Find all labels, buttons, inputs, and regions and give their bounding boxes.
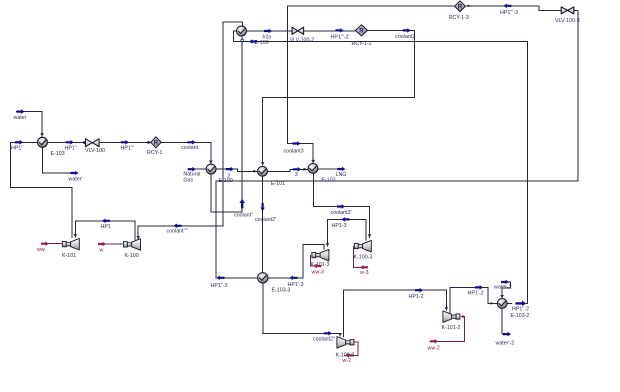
svg-text:coolant2'': coolant2'' <box>313 337 335 343</box>
label VLV-100-3 <box>555 18 580 24</box>
svg-text:R: R <box>154 140 159 147</box>
recycle RCY-1-2 <box>356 25 368 36</box>
svg-text:2: 2 <box>227 174 230 180</box>
svg-text:coolant2': coolant2' <box>255 217 276 223</box>
stream HP1'-2 wire (K-101-2 to E-103-2) <box>450 285 497 314</box>
stream HP1-3 wire (K-100-3 to K-101-3) <box>326 217 366 247</box>
label K-100-3 <box>354 255 373 261</box>
heat exchanger E-100 <box>206 164 216 174</box>
stream coolant5 wire (RCY-1-2 to E-101) <box>261 28 415 165</box>
stream water' label <box>69 177 83 183</box>
svg-text:K-100-3: K-100-3 <box>354 255 373 261</box>
energy stream w label <box>100 247 104 253</box>
svg-text:HP1': HP1' <box>11 145 22 151</box>
label E-103-3 <box>272 287 291 293</box>
label E-102 <box>322 177 336 183</box>
heat exchanger E-101 <box>258 166 268 176</box>
svg-text:coolant3': coolant3' <box>331 210 352 216</box>
svg-text:coolant'''': coolant'''' <box>167 229 188 235</box>
svg-text:RCY-1-2: RCY-1-2 <box>352 41 372 47</box>
svg-text:HP1'-2: HP1'-2 <box>468 290 484 296</box>
svg-text:E-101: E-101 <box>271 181 285 187</box>
svg-text:RCY-1-3: RCY-1-3 <box>449 15 469 21</box>
stream HP1 wire (K-100 to K-101) <box>74 219 135 240</box>
stream LNG label <box>336 172 347 178</box>
svg-text:HP1-3: HP1-3 <box>332 223 347 229</box>
svg-text:3: 3 <box>295 172 298 178</box>
label VLV-100 <box>85 148 105 154</box>
svg-text:w: w <box>100 247 104 253</box>
energy stream w wire <box>98 242 124 247</box>
stream HP1'''-2 label <box>331 34 349 40</box>
stream coolant3' wire (E-102 to K-100-3) <box>313 173 371 238</box>
svg-text:coolant'': coolant'' <box>234 213 253 219</box>
stream HP1'' wire <box>48 140 86 145</box>
recycle RCY-1-3 <box>455 1 466 12</box>
label VLV-100-2 <box>290 37 315 43</box>
stream HP1' label <box>11 145 22 151</box>
svg-text:HP1'': HP1'' <box>65 145 77 151</box>
label K-100 <box>125 253 139 259</box>
heat exchanger E-102 <box>308 164 318 174</box>
svg-text:VLV-100-2: VLV-100-2 <box>290 37 315 43</box>
compressor K-100-3 <box>354 240 371 252</box>
stream 3 wire <box>267 167 308 172</box>
svg-text:HP1'''-2: HP1'''-2 <box>331 34 349 40</box>
stream coolant2'' label <box>313 337 335 343</box>
svg-text:HP1-2: HP1-2 <box>409 294 424 300</box>
stream coolant'''' label <box>167 229 188 235</box>
stream HP1''-3 label <box>211 283 228 289</box>
svg-text:HP1''-2: HP1''-2 <box>512 307 529 313</box>
stream coolant'' label <box>234 213 253 219</box>
svg-text:Gas: Gas <box>183 177 193 183</box>
energy stream w-3 wire <box>353 246 368 270</box>
label K-101-3 <box>311 262 330 268</box>
stream water'-2 wire <box>502 308 511 336</box>
svg-text:HP1: HP1 <box>101 224 111 230</box>
stream h2o label <box>263 35 272 41</box>
stream HP1 label <box>101 224 111 230</box>
stream HP1''' wire <box>99 140 150 145</box>
svg-text:K-100: K-100 <box>125 253 139 259</box>
stream coolant2' label <box>255 217 276 223</box>
stream Natural Gas feed wire <box>188 167 206 172</box>
svg-text:coolant2: coolant2 <box>395 34 415 40</box>
label E-101 <box>271 181 285 187</box>
stream 2 label <box>227 174 230 180</box>
svg-text:HP1''-3: HP1''-3 <box>211 283 228 289</box>
compressor K-101-3 <box>312 249 329 261</box>
stream HP1''-2 label <box>512 307 529 313</box>
svg-text:ww-2: ww-2 <box>428 345 440 351</box>
stream HP1''' label <box>121 145 134 151</box>
stream coolant3 wire (RCY-1-3 to E-102) <box>288 6 455 164</box>
stream coolant label <box>181 145 199 151</box>
svg-text:water: water <box>14 115 27 121</box>
stream HP1'''-3 wire (VLV-100-3 to RCY-1-3) <box>466 4 561 11</box>
svg-text:coolant3: coolant3 <box>284 148 304 154</box>
stream coolant3 label <box>284 148 304 154</box>
label E-100 <box>219 178 233 184</box>
svg-text:water-2: water-2 <box>494 285 512 291</box>
energy stream ww wire <box>41 241 62 246</box>
svg-text:HP1'''-3: HP1'''-3 <box>500 10 518 16</box>
stream water-2 feed wire <box>500 280 510 299</box>
stream HP1'-2 label <box>468 290 484 296</box>
heat exchanger E-103 <box>38 137 48 147</box>
stream water-2 label <box>494 285 512 291</box>
svg-text:K-101-2: K-101-2 <box>442 325 461 331</box>
energy stream w-3 label <box>360 270 369 276</box>
stream coolant2' wire (E-101 to E-103-3) <box>260 176 265 272</box>
svg-text:HP1''': HP1''' <box>121 145 134 151</box>
label RCY-1-2 <box>352 41 372 47</box>
heat exchanger E-103-2 <box>497 299 507 309</box>
label K-101 <box>62 253 76 259</box>
svg-text:ww: ww <box>37 247 45 253</box>
svg-text:E-103: E-103 <box>51 151 65 157</box>
label K-100-2 <box>336 353 355 359</box>
stream HP1'' label <box>65 145 77 151</box>
compressor K-100-2 <box>337 337 354 349</box>
svg-text:coolant: coolant <box>181 145 199 151</box>
svg-text:E-103-3: E-103-3 <box>272 287 291 293</box>
stream HP1''-3 wire (E-103-3 to VLV-100-3) <box>216 10 578 280</box>
recycle RCY-1 <box>151 137 162 148</box>
compressor K-100 <box>124 239 141 251</box>
energy stream ww-2 wire <box>430 315 465 343</box>
svg-text:HP1'-3: HP1'-3 <box>288 282 304 288</box>
stream HP1'''-3 label <box>500 10 518 16</box>
valve VLV-100 <box>83 139 99 147</box>
svg-text:VLV-100: VLV-100 <box>85 148 105 154</box>
compressor K-101 <box>62 239 79 251</box>
stream water' wire <box>43 147 79 175</box>
svg-text:w-2: w-2 <box>343 358 352 364</box>
svg-text:R: R <box>458 3 463 10</box>
svg-text:E-102: E-102 <box>322 177 336 183</box>
svg-text:R: R <box>359 28 364 35</box>
svg-text:VLV-100-3: VLV-100-3 <box>555 18 580 24</box>
stream HP1''-2 wire (E-103-2 to E-100top) <box>234 31 528 306</box>
stream HP1-3 label <box>332 223 347 229</box>
stream 2 wire <box>216 167 257 173</box>
svg-text:water': water' <box>69 177 83 183</box>
energy stream w-2 wire <box>345 342 358 358</box>
stream coolant2'' wire (E-103-3 to K-100-2) <box>263 283 342 336</box>
stream coolant3' label <box>331 210 352 216</box>
valve VLV-100-3 <box>561 7 574 14</box>
stream coolant'''' wire (E-100top to K-100) <box>136 22 242 239</box>
stream HP1'''-2 wire <box>304 28 356 33</box>
energy stream ww-2 label <box>428 345 440 351</box>
label RCY-1 <box>147 150 162 156</box>
stream coolant'' wire (E-100 bottom to E-100top bottom) <box>211 36 245 212</box>
stream h2o wire <box>247 29 293 34</box>
stream HP1'-3 wire (K-101-3 to E-103-3) <box>268 245 324 281</box>
heat exchanger E-100top <box>237 26 247 42</box>
stream LNG wire <box>318 167 346 172</box>
stream coolant5 label <box>395 34 415 40</box>
stream coolant wire (RCY-1 to E-100) <box>162 140 213 164</box>
label K-101-2 <box>442 325 461 331</box>
svg-text:w-3: w-3 <box>360 270 369 276</box>
energy stream ww-3 label <box>312 270 324 276</box>
label E-103 <box>51 151 65 157</box>
stream HP1-2 wire (K-100-2 to K-101-2) <box>344 288 449 337</box>
svg-text:K-101: K-101 <box>62 253 76 259</box>
stream Natural Gas label <box>183 172 200 184</box>
energy stream w-2 label <box>343 358 352 364</box>
label E-103-2 <box>511 313 530 319</box>
stream HP1-2 label <box>409 294 424 300</box>
svg-text:LNG: LNG <box>336 172 347 178</box>
label RCY-1-3 <box>449 15 469 21</box>
stream water'-2 label <box>496 341 515 347</box>
compressor K-101-2 <box>443 311 460 323</box>
heat exchanger E-103-3 <box>258 273 268 283</box>
stream HP1'-3 label <box>288 282 304 288</box>
stream HP1' wire (K-101 outlet loop to E-103) <box>10 140 72 238</box>
svg-text:ww-3: ww-3 <box>312 270 324 276</box>
svg-text:h2o: h2o <box>263 35 272 41</box>
stream water label <box>14 115 27 121</box>
svg-text:water'-2: water'-2 <box>496 341 515 347</box>
stream 3 label <box>295 172 298 178</box>
valve VLV-100-2 <box>292 27 304 34</box>
svg-text:E-103-2: E-103-2 <box>511 313 530 319</box>
stream water feed wire <box>16 109 44 137</box>
energy stream ww label <box>37 247 45 253</box>
svg-text:RCY-1: RCY-1 <box>147 150 162 156</box>
label E-100 (top unit) <box>255 40 269 46</box>
energy stream ww-3 wire <box>310 255 321 268</box>
